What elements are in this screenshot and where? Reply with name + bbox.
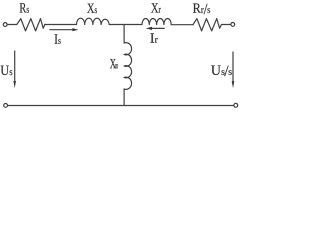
resistor Rs xyxy=(17,19,45,31)
current arrow Is xyxy=(50,29,74,31)
label Xr xyxy=(151,3,161,12)
label Rr/s xyxy=(193,4,210,15)
terminal top-right xyxy=(231,23,235,27)
resistor Rr/s xyxy=(193,19,222,31)
label Us/s xyxy=(211,66,232,77)
wire xyxy=(109,24,142,26)
terminal bottom-right xyxy=(234,103,238,107)
terminal top-left xyxy=(3,23,7,27)
wire bottom xyxy=(8,105,234,107)
label Is xyxy=(55,34,61,44)
label Xs xyxy=(87,4,97,14)
label Ir xyxy=(150,33,157,42)
label Xm xyxy=(110,59,118,68)
current arrow Ir xyxy=(151,27,165,29)
wire xyxy=(123,89,125,106)
wire xyxy=(171,24,193,26)
inductor Xr xyxy=(142,18,171,24)
inductor Xs xyxy=(77,18,110,24)
node T-junction xyxy=(123,25,125,44)
wire xyxy=(7,24,16,26)
arrowhead Us xyxy=(13,81,16,88)
arrowhead Ir xyxy=(146,27,152,30)
inductor Xm xyxy=(124,43,131,90)
wire xyxy=(45,24,77,26)
arrowhead Is xyxy=(72,28,78,31)
voltage arrow Us/s xyxy=(232,52,234,83)
terminal bottom-left xyxy=(4,104,8,108)
label Us xyxy=(1,66,13,76)
wire xyxy=(222,24,231,26)
arrowhead Us/s xyxy=(232,81,235,88)
voltage arrow Us xyxy=(14,51,16,82)
label Rs xyxy=(20,3,29,13)
